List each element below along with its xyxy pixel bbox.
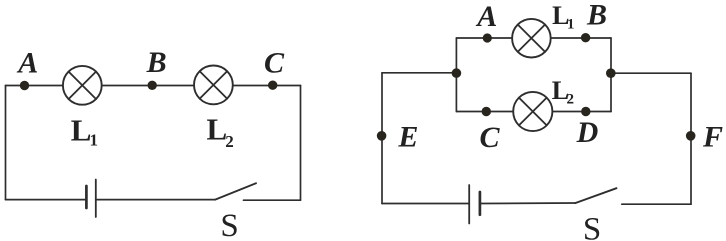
battery B2 (right circuit) [469, 185, 480, 224]
svg-text:B: B [146, 46, 167, 79]
svg-text:C: C [264, 47, 285, 80]
svg-text:B: B [586, 0, 607, 32]
node D (right circuit) [581, 107, 590, 116]
wire right-circuit bottom middle segment [480, 202, 576, 205]
lamp L1 (right circuit) [512, 19, 551, 58]
wire left-circuit bottom left segment [6, 199, 87, 201]
svg-text:C: C [479, 121, 500, 154]
switch S (left circuit) blade [215, 183, 256, 199]
svg-text:D: D [576, 116, 599, 149]
wire left-circuit top rail [6, 85, 301, 87]
wire right-circuit right side [690, 73, 692, 204]
wire left-circuit bottom middle segment [96, 199, 215, 201]
node F (right circuit) [686, 131, 696, 141]
svg-text:S: S [220, 208, 238, 241]
wire right-circuit branch-box right vertical [610, 38, 612, 112]
switch S (right circuit) blade [576, 188, 617, 203]
node C (left circuit) [268, 81, 277, 90]
wire left-circuit left side [5, 86, 7, 200]
node A (right circuit) [483, 33, 492, 42]
wire right-circuit bottom left segment [382, 203, 469, 205]
wire right-circuit left side [381, 73, 383, 204]
node C (right circuit) [482, 107, 491, 116]
node A (left circuit) [20, 81, 29, 90]
wire right-circuit bottom right segment [622, 203, 691, 205]
battery B1 (left circuit) [86, 180, 95, 218]
node B (right circuit) [581, 33, 590, 42]
junction node (right circuit, right) [606, 68, 616, 78]
svg-text:E: E [397, 121, 418, 154]
lamp L2 (left circuit) [194, 66, 233, 105]
svg-text:A: A [475, 0, 497, 33]
svg-text:F: F [702, 121, 723, 154]
junction node (right circuit, left) [452, 68, 462, 78]
svg-text:A: A [16, 46, 38, 79]
wire right-circuit branch-box left vertical [455, 38, 457, 112]
lamp L2 (right circuit) [513, 92, 552, 131]
wire left-circuit right side [300, 86, 302, 201]
node B (left circuit) [148, 81, 157, 90]
wire right-circuit bottom branch [456, 111, 611, 113]
node E (right circuit) [377, 131, 387, 141]
svg-text:S: S [583, 212, 601, 241]
lamp L1 (left circuit) [63, 66, 102, 105]
wire left-circuit bottom right segment [244, 199, 301, 201]
wire right-circuit left rail [382, 72, 456, 74]
wire right-circuit right rail [611, 72, 691, 74]
wire right-circuit top branch [456, 37, 611, 39]
